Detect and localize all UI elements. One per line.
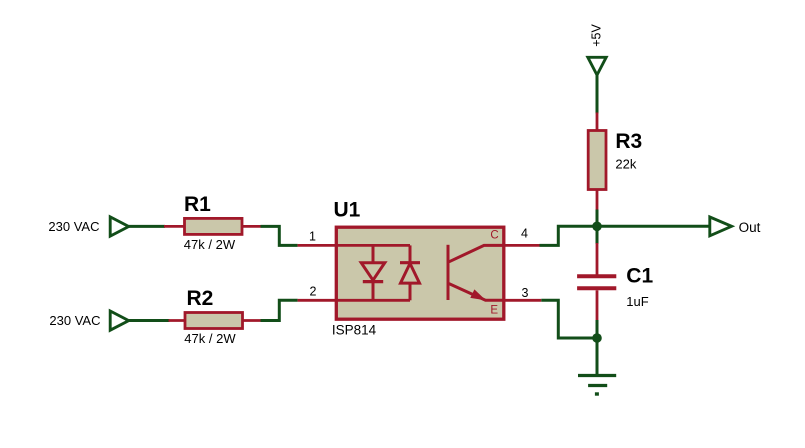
- pin wire 3 (red): [504, 299, 541, 302]
- op-amp U1 body (optocoupler box): [336, 227, 504, 319]
- wire C1 to ground rail: [596, 320, 599, 338]
- capacitor C1 plates: [577, 276, 616, 288]
- junction node (ground rail): [592, 333, 602, 343]
- input terminal top (arrow): [110, 217, 129, 236]
- input terminal bottom (arrow): [110, 311, 129, 330]
- svg-text:230 VAC: 230 VAC: [49, 313, 100, 328]
- pin wire 2 (red): [298, 299, 336, 302]
- svg-text:2: 2: [309, 285, 316, 299]
- wire inner bottom (pin2 rail): [337, 299, 410, 302]
- pin stub R2 right: [243, 319, 261, 322]
- pin stub R2 left: [169, 319, 186, 322]
- svg-text:3: 3: [522, 286, 529, 300]
- svg-text:1uF: 1uF: [626, 294, 648, 309]
- svg-text:ISP814: ISP814: [332, 323, 377, 338]
- svg-text:U1: U1: [334, 198, 361, 221]
- svg-text:+5V: +5V: [589, 24, 603, 47]
- pin wire 4 (red): [504, 244, 540, 247]
- pin stub R3 top: [596, 113, 599, 132]
- svg-text:E: E: [490, 304, 498, 316]
- svg-text:230 VAC: 230 VAC: [48, 219, 99, 234]
- wire junction to ground: [596, 338, 599, 376]
- wire R1 to U1 pin1: [261, 226, 298, 245]
- out terminal (arrow): [710, 217, 732, 236]
- wire input1 to R1: [129, 225, 165, 228]
- resistor R3 body: [588, 131, 606, 190]
- svg-text:R1: R1: [184, 193, 211, 216]
- junction node (out rail): [592, 222, 602, 232]
- svg-text:47k / 2W: 47k / 2W: [184, 237, 236, 252]
- diode D2 (right, cathode up): [400, 245, 420, 300]
- svg-text:R3: R3: [615, 130, 642, 153]
- pin stub R3 bottom: [596, 190, 599, 211]
- svg-text:Out: Out: [739, 220, 761, 235]
- diode D1 (left, cathode down): [361, 245, 385, 300]
- power symbol +5V: [588, 57, 606, 75]
- svg-text:22k: 22k: [615, 157, 636, 172]
- transistor Q (phototransistor): [448, 245, 503, 301]
- ground: [578, 376, 616, 395]
- wire R2 to U1 pin2: [261, 300, 298, 320]
- wire inner top (pin1 rail): [337, 244, 410, 247]
- svg-text:47k / 2W: 47k / 2W: [184, 331, 236, 346]
- wire junction to C1: [596, 226, 599, 244]
- pin stub R1 right: [242, 225, 261, 228]
- svg-text:C: C: [490, 230, 498, 242]
- pin wire 1 (red): [298, 244, 336, 247]
- wire +5V to R3: [596, 75, 599, 114]
- wire pin3 to ground rail: [541, 300, 597, 338]
- wire input2 to R2: [129, 319, 170, 322]
- svg-text:4: 4: [521, 227, 528, 241]
- svg-text:R2: R2: [187, 287, 214, 310]
- resistor R2 body: [185, 313, 243, 329]
- pin stub C1 top: [596, 243, 599, 275]
- pin stub C1 bottom: [596, 290, 599, 321]
- wire pin4 to out rail: [540, 226, 710, 245]
- svg-text:C1: C1: [626, 265, 653, 288]
- wire R3 to out rail: [596, 210, 599, 227]
- svg-text:1: 1: [309, 230, 316, 244]
- pin stub R1 left: [164, 225, 185, 228]
- resistor R1 body: [185, 218, 243, 234]
